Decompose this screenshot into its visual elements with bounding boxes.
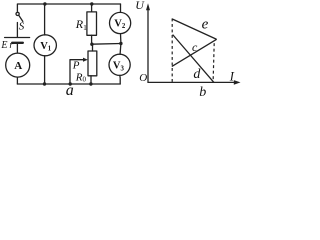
- wire bottom side: [17, 83, 120, 85]
- ammeter A: [6, 53, 30, 77]
- node a bottom wiper: [69, 82, 72, 85]
- svg-text:b: b: [199, 85, 206, 97]
- svg-text:r: r: [9, 40, 13, 51]
- wire middle: [92, 43, 121, 46]
- U axis: [147, 8, 149, 82]
- wire V3 branch top: [119, 44, 122, 55]
- svg-text:O: O: [139, 72, 147, 84]
- wire V2 branch bottom: [120, 34, 122, 44]
- line c: [172, 40, 216, 67]
- wire V3 branch bottom: [119, 75, 121, 84]
- svg-text:U: U: [135, 0, 145, 12]
- node bottom R0: [89, 82, 92, 85]
- wire V1 branch bottom: [44, 56, 46, 84]
- svg-text:P: P: [72, 60, 80, 72]
- I axis arrowhead: [234, 80, 241, 85]
- svg-text:I: I: [229, 69, 235, 83]
- dashed line right: [213, 43, 214, 82]
- wire R1 to node: [91, 35, 93, 44]
- switch S: [16, 12, 19, 15]
- wire R1 branch top: [91, 4, 93, 12]
- node top V1: [43, 2, 46, 5]
- svg-text:c: c: [192, 40, 198, 54]
- svg-text:a: a: [66, 82, 74, 97]
- U axis arrowhead: [146, 3, 150, 10]
- wiper arrowhead: [83, 58, 88, 62]
- node bottom V1: [43, 82, 46, 85]
- rheostat R0: [88, 51, 97, 76]
- node mid V2: [119, 42, 122, 45]
- wire R0 top stub: [92, 44, 94, 51]
- wiper P arm: [70, 60, 85, 84]
- battery E r: [5, 37, 30, 39]
- svg-text:e: e: [202, 16, 209, 32]
- line d: [173, 35, 214, 82]
- I axis: [148, 81, 237, 83]
- voltmeter V3: [109, 54, 130, 75]
- node top R1: [90, 2, 93, 5]
- wire battery to ammeter: [16, 43, 18, 53]
- resistor R1: [87, 12, 97, 35]
- wire ammeter to bottom: [16, 77, 18, 84]
- svg-text:A: A: [14, 60, 22, 72]
- node mid R1: [90, 43, 93, 46]
- line e: [172, 19, 216, 39]
- svg-text:E: E: [0, 40, 7, 51]
- svg-text:S: S: [19, 21, 25, 33]
- wire R0 bottom stub: [90, 76, 92, 84]
- voltmeter V2: [110, 12, 131, 33]
- wire switch to battery: [16, 23, 18, 38]
- wire right side V2 column top: [120, 4, 122, 12]
- dashed line left: [171, 19, 173, 83]
- graph axes: [148, 8, 237, 82]
- voltmeter V1: [34, 35, 56, 56]
- svg-text:d: d: [193, 67, 201, 82]
- wire top side: [17, 4, 120, 11]
- wire V1 branch top: [44, 4, 46, 35]
